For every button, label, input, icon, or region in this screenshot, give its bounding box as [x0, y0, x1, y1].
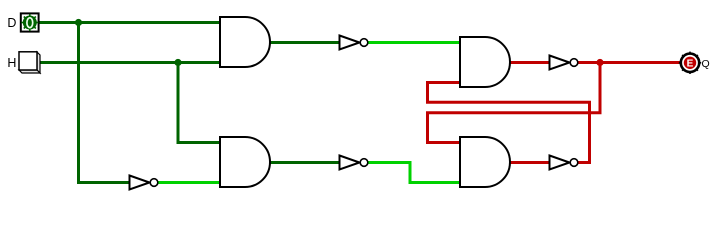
label D [7, 16, 16, 30]
inverter NOT1 [340, 36, 368, 50]
output pin Q value E [679, 52, 701, 74]
wire NOT_bl output to AND2 lower input (logic 1) [157, 181, 222, 184]
svg-text:E: E [687, 58, 694, 69]
svg-text:H: H [7, 56, 16, 70]
svg-text:D: D [7, 16, 16, 30]
svg-text:Q: Q [702, 58, 710, 70]
and-gate AND3 [460, 37, 510, 87]
button H [19, 52, 40, 73]
wire net H row [37, 61, 222, 64]
inverter NOT4 [550, 156, 578, 170]
label H [7, 56, 16, 70]
wire AND3 output to NOT2 (error) [509, 61, 551, 64]
input pin D value 0 [21, 13, 39, 31]
inverter NOT3 [340, 156, 368, 170]
wire feedback Qbar to AND3 lower input (error) [428, 83, 590, 163]
label Q [702, 58, 710, 70]
wire NOT3 output jog to AND4 lower input (logic 1) [368, 163, 461, 183]
junction on D row [75, 19, 82, 26]
wire AND4 output to NOT4 (error) [509, 161, 551, 164]
wire NOT1 output to AND3 (logic 1) [368, 41, 461, 44]
wire H-branch vertical to AND2 [178, 63, 222, 143]
junction on H row [174, 59, 181, 66]
wire AND2 output to NOT3 [269, 161, 341, 164]
wire net D row [39, 21, 222, 24]
junction node Q [596, 59, 603, 66]
inverter NOT_bl [130, 176, 158, 190]
wire D-branch vertical to bottom inverter [79, 23, 132, 183]
wire AND1 output to NOT1 [269, 41, 341, 44]
and-gate AND1 [220, 17, 270, 67]
inverter NOT2 [550, 56, 578, 70]
and-gate AND4 [460, 137, 510, 187]
and-gate AND2 [220, 137, 270, 187]
wire NOT2 output to pin Q (error) [578, 61, 680, 64]
wire feedback Q to AND4 upper input (error) [428, 63, 601, 143]
